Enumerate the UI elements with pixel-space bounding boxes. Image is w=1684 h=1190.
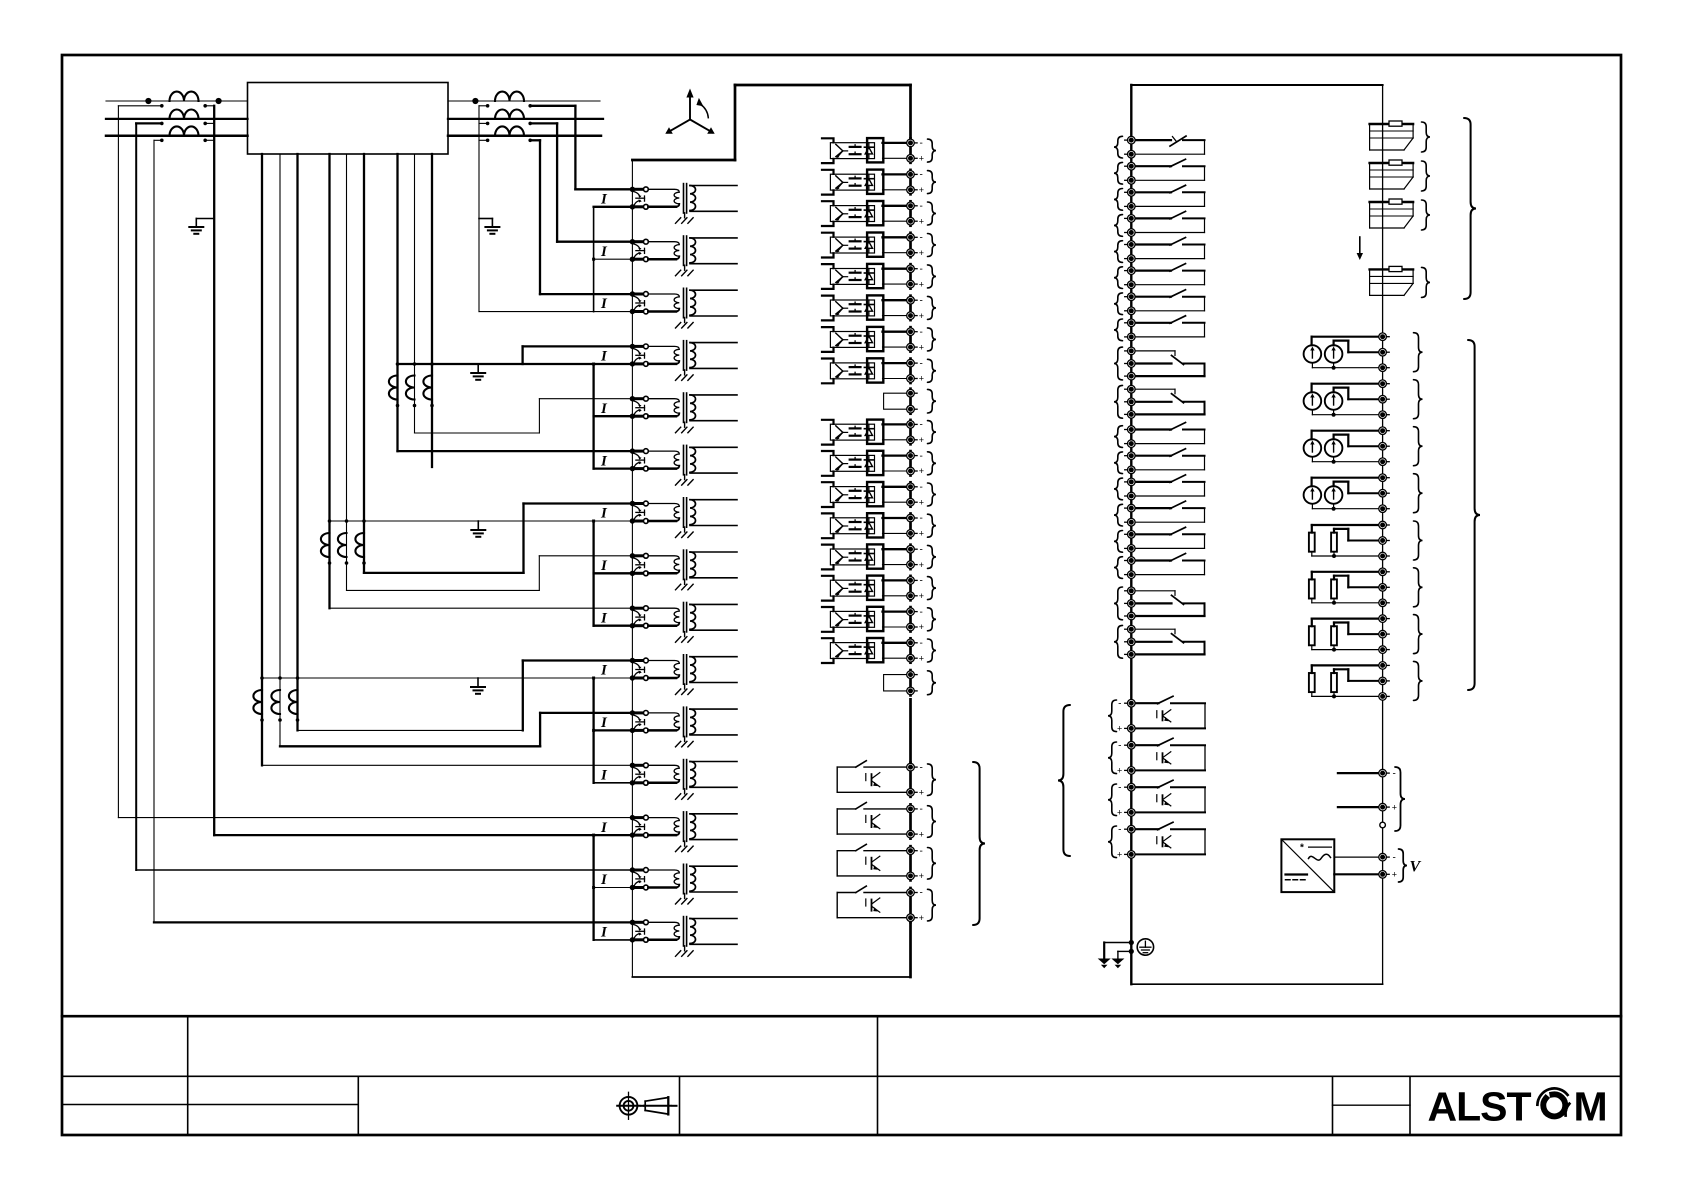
case earth connections box 2 — [1104, 940, 1134, 959]
opto input L5 — [830, 264, 883, 288]
brace analog outputs group — [1468, 340, 1480, 690]
relay output contact RL15 — [1131, 527, 1204, 548]
ground transformer T1 — [676, 213, 694, 224]
wire CT2 phase C secondary to input I3 — [528, 139, 632, 295]
terminals changeover RL10 — [1125, 385, 1135, 418]
wire opto L11 to terminals — [883, 487, 911, 502]
opto input L15 internal leads — [822, 607, 834, 632]
brace V — [1399, 849, 1408, 882]
brace contact RL6 — [1114, 267, 1123, 289]
svg-text:+: + — [919, 248, 924, 258]
wire box outputs group D down-runs — [330, 154, 365, 608]
brace opto L11 — [928, 483, 937, 506]
terminals opto L12 — [907, 513, 924, 538]
wire opto L5 to terminals — [883, 269, 911, 284]
wire CT1 common return down-run — [213, 106, 215, 835]
current transformer CT1 phase A — [170, 92, 199, 101]
relay output contact RL13 — [1131, 475, 1204, 496]
communication port P1 — [1370, 121, 1414, 150]
brace opto L3 — [928, 202, 937, 225]
svg-text:+: + — [919, 342, 924, 352]
wire opto L3 to terminals — [883, 206, 911, 221]
current transformer group D (3-phase) — [321, 533, 364, 557]
svg-text:-: - — [920, 888, 923, 899]
CT1 secondary tap wires (left side) — [118, 104, 163, 142]
neutral bus inputs I10-I12 — [592, 678, 632, 783]
svg-text:+: + — [919, 311, 924, 321]
svg-text:I: I — [600, 506, 608, 522]
current input I14 label — [600, 872, 608, 888]
terminals resistor output R4 — [1379, 662, 1389, 701]
chassis ground symbol 2 — [1111, 959, 1124, 969]
brace contact RL7 — [1114, 293, 1123, 315]
terminals resistor output R1 — [1379, 521, 1389, 560]
current loop output A2 — [1304, 392, 1343, 410]
wire input I9 upper — [330, 607, 633, 609]
neutral bus inputs I7-I9 — [594, 521, 633, 626]
RS485 terminals — [1379, 768, 1397, 828]
terminals contact RL4 — [1125, 215, 1135, 237]
ground transformer T3 — [676, 318, 694, 329]
brace contact RL4 — [1114, 215, 1123, 237]
wire opto L7 to terminals — [883, 332, 911, 347]
svg-text:-: - — [920, 638, 923, 649]
svg-text:+: + — [1117, 850, 1122, 860]
brace contact RL1 — [1114, 136, 1123, 158]
high break output contact H4 — [837, 886, 910, 918]
wire CT1 phase A secondary down-run — [117, 106, 119, 818]
svg-text:+: + — [919, 154, 924, 164]
wire CT2 phase A secondary to input I1 — [528, 104, 632, 189]
relay output contact RL2 — [1131, 159, 1204, 180]
transformer T4 — [648, 341, 737, 370]
brace current loop A2 — [1414, 380, 1423, 419]
terminals contact RL5 — [1125, 241, 1135, 263]
wire opto L10 to terminals — [883, 456, 911, 471]
terminals opto L15 — [907, 607, 924, 632]
svg-text:-: - — [920, 420, 923, 431]
brace opto L15 — [928, 608, 937, 631]
transformer T12 — [648, 760, 737, 789]
svg-text:-: - — [920, 544, 923, 555]
brace high break HB2 — [1108, 742, 1117, 774]
wire opto L14 to terminals — [883, 580, 911, 595]
wire opto L13 to terminals — [883, 549, 911, 564]
brace current loop A3 — [1414, 427, 1423, 466]
neutral bus inputs I1-I3 — [479, 207, 632, 312]
resistor output R4a — [1309, 673, 1315, 692]
svg-text:-: - — [1393, 768, 1396, 779]
opto input L13 — [830, 544, 883, 568]
brace opto L16 — [928, 639, 937, 662]
wires resistor output R3 — [1312, 619, 1383, 652]
terminals contact RL15 — [1125, 531, 1135, 553]
transformer T2 — [648, 236, 737, 265]
ground transformer T8 — [676, 579, 694, 590]
resistor output R1a — [1309, 533, 1315, 552]
current loop output A3 — [1304, 439, 1343, 457]
svg-text:-: - — [1118, 782, 1121, 793]
relay box 1 outline — [632, 85, 910, 977]
svg-text:-: - — [1118, 698, 1121, 709]
terminals current loop A4 — [1379, 474, 1389, 513]
svg-text:+: + — [919, 216, 924, 226]
opto input L10 — [830, 451, 883, 475]
communication port P2 — [1370, 160, 1414, 189]
relay output contact RL7 — [1131, 290, 1204, 311]
terminals high break H4 — [907, 888, 924, 923]
brace high break H3 — [928, 848, 937, 880]
terminals high break H1 — [907, 762, 924, 797]
transformer T14 — [648, 864, 737, 893]
transformer T13 — [648, 812, 737, 841]
opto input L8 — [830, 358, 883, 382]
current input I11 label — [600, 715, 608, 731]
high break output contact HB3 — [1131, 780, 1205, 812]
opto input L7 internal leads — [822, 327, 834, 352]
wire CT1 phase C secondary down-run — [153, 140, 155, 922]
terminals contact RL3 — [1125, 189, 1135, 211]
svg-text:-: - — [920, 138, 923, 149]
current transformer group E (3-phase) — [253, 690, 297, 714]
wire input I14 upper (from CT1 phase B) — [136, 869, 632, 871]
ground transformer T7 — [676, 527, 694, 538]
svg-text:-: - — [920, 607, 923, 618]
ground transformer T11 — [676, 736, 694, 747]
opto input L14 — [830, 576, 883, 600]
terminals contact RL11 — [1125, 426, 1135, 448]
terminals PSU output V — [1379, 852, 1397, 879]
svg-text:-: - — [1393, 852, 1396, 863]
ground transformer T10 — [676, 684, 694, 695]
ground group C — [471, 364, 485, 380]
terminals opto L3 — [907, 201, 924, 226]
svg-text:I: I — [600, 296, 608, 312]
svg-text:I: I — [600, 453, 608, 469]
svg-text:-: - — [920, 576, 923, 587]
wire CT2 phase B secondary to input I2 — [528, 122, 632, 242]
relay output contact RL5 — [1131, 238, 1204, 259]
brace resistor output R3 — [1414, 615, 1423, 654]
wire input I15 upper (from CT1 phase C) — [154, 921, 632, 923]
svg-text:+: + — [919, 560, 924, 570]
current input I13 terminals — [630, 815, 649, 838]
svg-text:+: + — [1117, 808, 1122, 818]
ground transformer T2 — [676, 265, 694, 276]
current input I6 terminals — [630, 448, 649, 471]
wires current loop A4 — [1312, 478, 1383, 511]
opto input L4 — [830, 233, 883, 257]
ground transformer T5 — [676, 422, 694, 433]
wire CT2 common return down-run — [478, 106, 480, 312]
svg-text:+: + — [919, 788, 924, 798]
brace resistor output R1 — [1414, 521, 1423, 560]
wire opto L1 to terminals — [883, 143, 911, 158]
relay output contact RL6 — [1131, 264, 1204, 285]
svg-text:+: + — [919, 497, 924, 507]
resistor output R2b — [1331, 579, 1337, 598]
wire opto L15 to terminals — [883, 612, 911, 627]
high break output contact H3 — [837, 844, 910, 876]
phase rotation symbol — [665, 89, 714, 134]
brace contact RL5 — [1114, 241, 1123, 263]
transformer T11 — [648, 707, 737, 736]
terminals opto L6 — [907, 295, 924, 320]
terminals high break HB3 — [1117, 782, 1135, 817]
CT1 secondary tap wires (right side / star point) — [203, 104, 214, 142]
svg-text:+: + — [919, 435, 924, 445]
current input I14 terminals — [630, 867, 649, 890]
opto input L8 internal leads — [822, 359, 834, 384]
brace high break H4 — [928, 889, 937, 921]
terminals high break HB1 — [1117, 698, 1135, 733]
opto input L9 — [830, 420, 883, 444]
svg-text:+: + — [1117, 724, 1122, 734]
svg-text:+: + — [919, 466, 924, 476]
svg-text:I: I — [600, 715, 608, 731]
svg-text:+: + — [919, 591, 924, 601]
wire opto L4 to terminals — [883, 237, 911, 252]
current input I10 terminals — [630, 658, 649, 681]
terminals contact RL16 — [1125, 557, 1135, 579]
ground transformer T15 — [676, 946, 694, 957]
opto input L7 — [830, 327, 883, 351]
brace communication group — [1464, 118, 1476, 299]
brace opto L12 — [928, 514, 937, 537]
brace contact RL2 — [1114, 162, 1123, 184]
brace resistor output R2 — [1414, 568, 1423, 607]
svg-text:+: + — [1392, 870, 1397, 880]
wire group C common / input I4 lower — [396, 362, 633, 407]
svg-text:-: - — [1118, 740, 1121, 751]
opto input L3 internal leads — [822, 201, 834, 226]
wires current loop A3 — [1312, 431, 1383, 464]
power supply unit PSU — [1281, 839, 1334, 892]
svg-text:ALST: ALST — [1428, 1084, 1532, 1130]
wire opto L2 to terminals — [883, 174, 911, 189]
current input I11 terminals — [630, 710, 649, 733]
svg-text:I: I — [600, 610, 608, 626]
terminals contact RL8 — [1125, 319, 1135, 341]
terminals contact RL7 — [1125, 293, 1135, 315]
brace changeover RL9 — [1114, 347, 1123, 380]
svg-text:+: + — [919, 622, 924, 632]
ground group E — [471, 678, 485, 694]
current input I9 label — [600, 610, 608, 626]
relay box 1 right edge — [909, 85, 912, 977]
terminals changeover RL17 — [1125, 587, 1135, 620]
terminals contact RL12 — [1125, 452, 1135, 474]
brace opto L8 — [928, 359, 937, 382]
opto input L6 — [830, 295, 883, 319]
svg-text:+: + — [1392, 802, 1397, 812]
brace opto L14 — [928, 577, 937, 600]
current input I15 terminals — [630, 920, 649, 943]
current input I2 terminals — [630, 239, 649, 262]
terminals opto L13 — [907, 544, 924, 569]
communication port P3 — [1370, 199, 1414, 228]
svg-text:+: + — [919, 529, 924, 539]
current transformer group C (3-phase) — [389, 376, 432, 400]
changeover contact RL10 — [1131, 389, 1204, 414]
neutral bus inputs I13-I15 — [592, 835, 632, 940]
neutral bus inputs I4-I6 — [594, 364, 633, 469]
brace contact RL15 — [1114, 531, 1123, 553]
brace high break H1 — [928, 764, 937, 796]
svg-text:-: - — [920, 451, 923, 462]
current input I1 label — [600, 192, 608, 208]
label V — [1410, 859, 1422, 876]
opto input L13 internal leads — [822, 545, 834, 570]
three-phase busbar right section — [448, 101, 603, 136]
title block grid — [62, 1016, 1621, 1135]
brace contact RL3 — [1114, 189, 1123, 211]
opto input L6 internal leads — [822, 296, 834, 321]
high break output contact H2 — [837, 803, 910, 835]
wires resistor output R1 — [1312, 525, 1383, 558]
resistor output R3a — [1309, 626, 1315, 645]
resistor output R3b — [1331, 626, 1337, 645]
opto input L12 internal leads — [822, 513, 834, 538]
brace changeover RL10 — [1114, 385, 1123, 418]
svg-text:-: - — [920, 513, 923, 524]
svg-text:*: * — [1300, 843, 1304, 854]
brace communication port P4 — [1422, 267, 1431, 297]
terminals high break H3 — [907, 846, 924, 881]
current input I4 label — [600, 349, 608, 365]
svg-text:-: - — [1118, 824, 1121, 835]
opto input L11 — [830, 482, 883, 506]
ground transformer T13 — [676, 841, 694, 852]
current input I3 label — [600, 296, 608, 312]
svg-text:I: I — [600, 820, 608, 836]
current input I13 label — [600, 820, 608, 836]
brace current loop A4 — [1414, 474, 1423, 513]
current transformer CT1 phase C — [170, 126, 199, 135]
transformer T6 — [648, 445, 737, 474]
terminals high break H2 — [907, 804, 924, 839]
opto input L12 — [830, 513, 883, 537]
brace opto L4 — [928, 234, 937, 257]
ground transformer T12 — [676, 789, 694, 800]
wire input I13 upper (from CT1 phase A) — [118, 817, 632, 819]
opto input L1 — [830, 138, 883, 162]
transformer T5 — [648, 393, 737, 422]
current input I5 label — [600, 401, 608, 417]
svg-text:-: - — [920, 804, 923, 815]
wire input I12 upper — [262, 764, 632, 766]
common terminal pair 1 — [884, 389, 918, 413]
opto input L15 — [830, 607, 883, 631]
interposing transformer box (top) — [248, 83, 449, 155]
resistor output R4b — [1331, 673, 1337, 692]
svg-text:I: I — [600, 872, 608, 888]
relay output contact RL1 — [1131, 136, 1204, 154]
relay output contact RL8 — [1131, 316, 1204, 337]
wire opto L6 to terminals — [883, 300, 911, 315]
svg-text:I: I — [600, 768, 608, 784]
current loop output A4 — [1304, 486, 1343, 504]
brace communication port P1 — [1422, 122, 1431, 152]
relay box 2 outline — [1131, 85, 1382, 984]
brace opto L2 — [928, 171, 937, 194]
wires PSU output V — [1334, 857, 1382, 874]
current loop output A1 — [1304, 345, 1343, 363]
junction dots on phase A busbar (left) — [145, 98, 221, 104]
brace communication port P2 — [1422, 161, 1431, 191]
relay output contact RL14 — [1131, 501, 1204, 522]
svg-text:I: I — [600, 663, 608, 679]
terminals resistor output R2 — [1379, 568, 1389, 607]
terminals current loop A3 — [1379, 427, 1389, 466]
relay output contact RL12 — [1131, 449, 1204, 470]
terminals high break HB2 — [1117, 740, 1135, 775]
brace RS485 — [1395, 767, 1405, 831]
opto input L14 internal leads — [822, 576, 834, 601]
first angle projection symbol — [617, 1092, 676, 1119]
current input I9 terminals — [630, 606, 649, 629]
svg-text:+: + — [919, 829, 924, 839]
terminals opto L8 — [907, 358, 924, 383]
opto input L16 — [830, 638, 883, 662]
terminals contact RL6 — [1125, 267, 1135, 289]
download arrow — [1357, 237, 1363, 260]
terminals opto L1 — [907, 138, 924, 163]
brace opto L7 — [928, 328, 937, 351]
transformer T15 — [648, 917, 737, 946]
relay output contact RL11 — [1131, 423, 1204, 444]
brace opto L13 — [928, 545, 937, 568]
wire input I10 upper — [298, 661, 633, 731]
brace common pair 1 — [928, 389, 937, 413]
chassis ground symbol 1 — [1098, 959, 1111, 969]
svg-text:V: V — [1410, 859, 1422, 876]
current input I8 terminals — [630, 553, 649, 576]
brace contact RL13 — [1114, 478, 1123, 500]
terminals opto L10 — [907, 451, 924, 476]
terminals opto L16 — [907, 638, 924, 663]
svg-text:-: - — [920, 170, 923, 181]
ground transformer T9 — [676, 632, 694, 643]
terminals changeover RL9 — [1125, 347, 1135, 380]
svg-text:-: - — [920, 482, 923, 493]
brace contact RL14 — [1114, 504, 1123, 526]
svg-text:-: - — [920, 762, 923, 773]
wire input I8 upper — [347, 556, 633, 591]
current input I12 label — [600, 768, 608, 784]
svg-text:-: - — [920, 201, 923, 212]
resistor output R1b — [1331, 533, 1337, 552]
svg-text:-: - — [920, 264, 923, 275]
brace high break HB4 — [1108, 826, 1117, 858]
terminals contact RL1 — [1125, 136, 1135, 158]
CT2 secondary tap wires (left side / star point) — [479, 104, 489, 142]
terminals opto L2 — [907, 170, 924, 195]
wire input I7 upper — [364, 504, 632, 573]
transformer T3 — [648, 288, 737, 317]
transformer T1 — [648, 184, 737, 213]
svg-text:-: - — [920, 327, 923, 338]
relay output contact RL3 — [1131, 185, 1204, 206]
terminals opto L7 — [907, 327, 924, 352]
svg-text:I: I — [600, 244, 608, 260]
high break output contact HB2 — [1131, 738, 1205, 770]
svg-text:+: + — [919, 871, 924, 881]
svg-text:-: - — [920, 846, 923, 857]
opto input L2 internal leads — [822, 170, 834, 195]
terminals opto L14 — [907, 576, 924, 601]
communication port P4 — [1370, 266, 1414, 295]
